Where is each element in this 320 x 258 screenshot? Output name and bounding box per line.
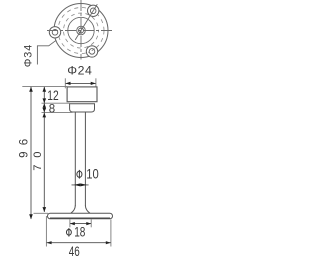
top view: center boss circle inner [79,28,84,33]
bolt hole C inner [89,49,95,55]
arrow 8 bottom [43,108,47,112]
svg-text:46: 46 [69,244,80,258]
arrow 12 top [43,87,47,92]
top view: bolt circle (dashed) [58,8,104,54]
arrow ⌀18 left [70,222,75,225]
front view: foot flare left [71,206,75,214]
top view: flange outer circle ⌀34 [54,4,108,58]
dimension line ⌀18 [70,223,91,225]
arrow 96 bottom [29,214,33,219]
arrow 46 right [106,241,111,244]
extension line at cap top [22,86,67,88]
top view: center boss circle outer [77,26,86,35]
arrow 12 bottom [43,98,47,103]
bolt hole A (top right) counterbore [88,5,99,16]
extension lines ⌀18 [69,219,71,227]
label ⌀18 [66,229,71,235]
arrow 46 left [47,241,52,244]
arrow 70 bottom [43,207,47,212]
svg-text:Φ34: Φ34 [22,45,34,68]
diagonal radial line to hole A [75,4,97,40]
bolt hole B (left) counterbore [49,27,60,38]
arrow 96 top [29,87,33,92]
dimension line 12/8/70 common [43,87,45,212]
base plate bottom edge emphasis [50,217,110,219]
front view: foot flare right [85,206,90,214]
bolt hole A inner [90,8,96,14]
dimension line 96 [30,87,32,219]
extension lines for ⌀24 [64,78,66,88]
arrow left ⌀24 [66,82,71,85]
extension line at cap bottom / tier top [42,102,70,104]
front view: base plate [48,213,113,219]
front view: cap (top block) [67,87,97,102]
leader line for ⌀34 [37,40,56,64]
arrow 8 top [43,103,47,108]
svg-text:8: 8 [49,103,55,115]
top view: cap projection circle [68,17,94,43]
extension line at tier bottom [42,111,73,113]
bolt hole C (bottom) counterbore [86,46,97,57]
dimension line ⌀24 [66,82,96,84]
svg-text:Φ24: Φ24 [67,63,92,77]
dimension ⌀10 line across tube [72,184,89,186]
arrow ⌀10 left [74,183,81,186]
front view: neck tier [70,104,95,112]
svg-text:12: 12 [47,87,59,103]
horizontal centerline of top view [47,30,114,32]
front view: tube left wall [74,112,76,206]
arrow ⌀10 right [80,183,87,186]
front view: tube right wall [84,112,86,206]
vertical centerline of top view [80,0,82,60]
arrow 70 top [43,113,47,118]
label ⌀10 [77,171,82,177]
extension lines 46 [45,216,47,247]
bolt circle arc through hole C [88,49,94,53]
svg-text:10: 10 [86,165,99,181]
svg-text:18: 18 [74,225,85,240]
extension line at plate (bottom left) [34,212,49,214]
dimension line 46 [47,242,111,244]
arrow right ⌀24 [91,82,96,85]
top view: inner dashed circle [64,13,99,48]
arrow ⌀18 right [86,222,91,225]
bolt hole B inner [52,30,58,36]
